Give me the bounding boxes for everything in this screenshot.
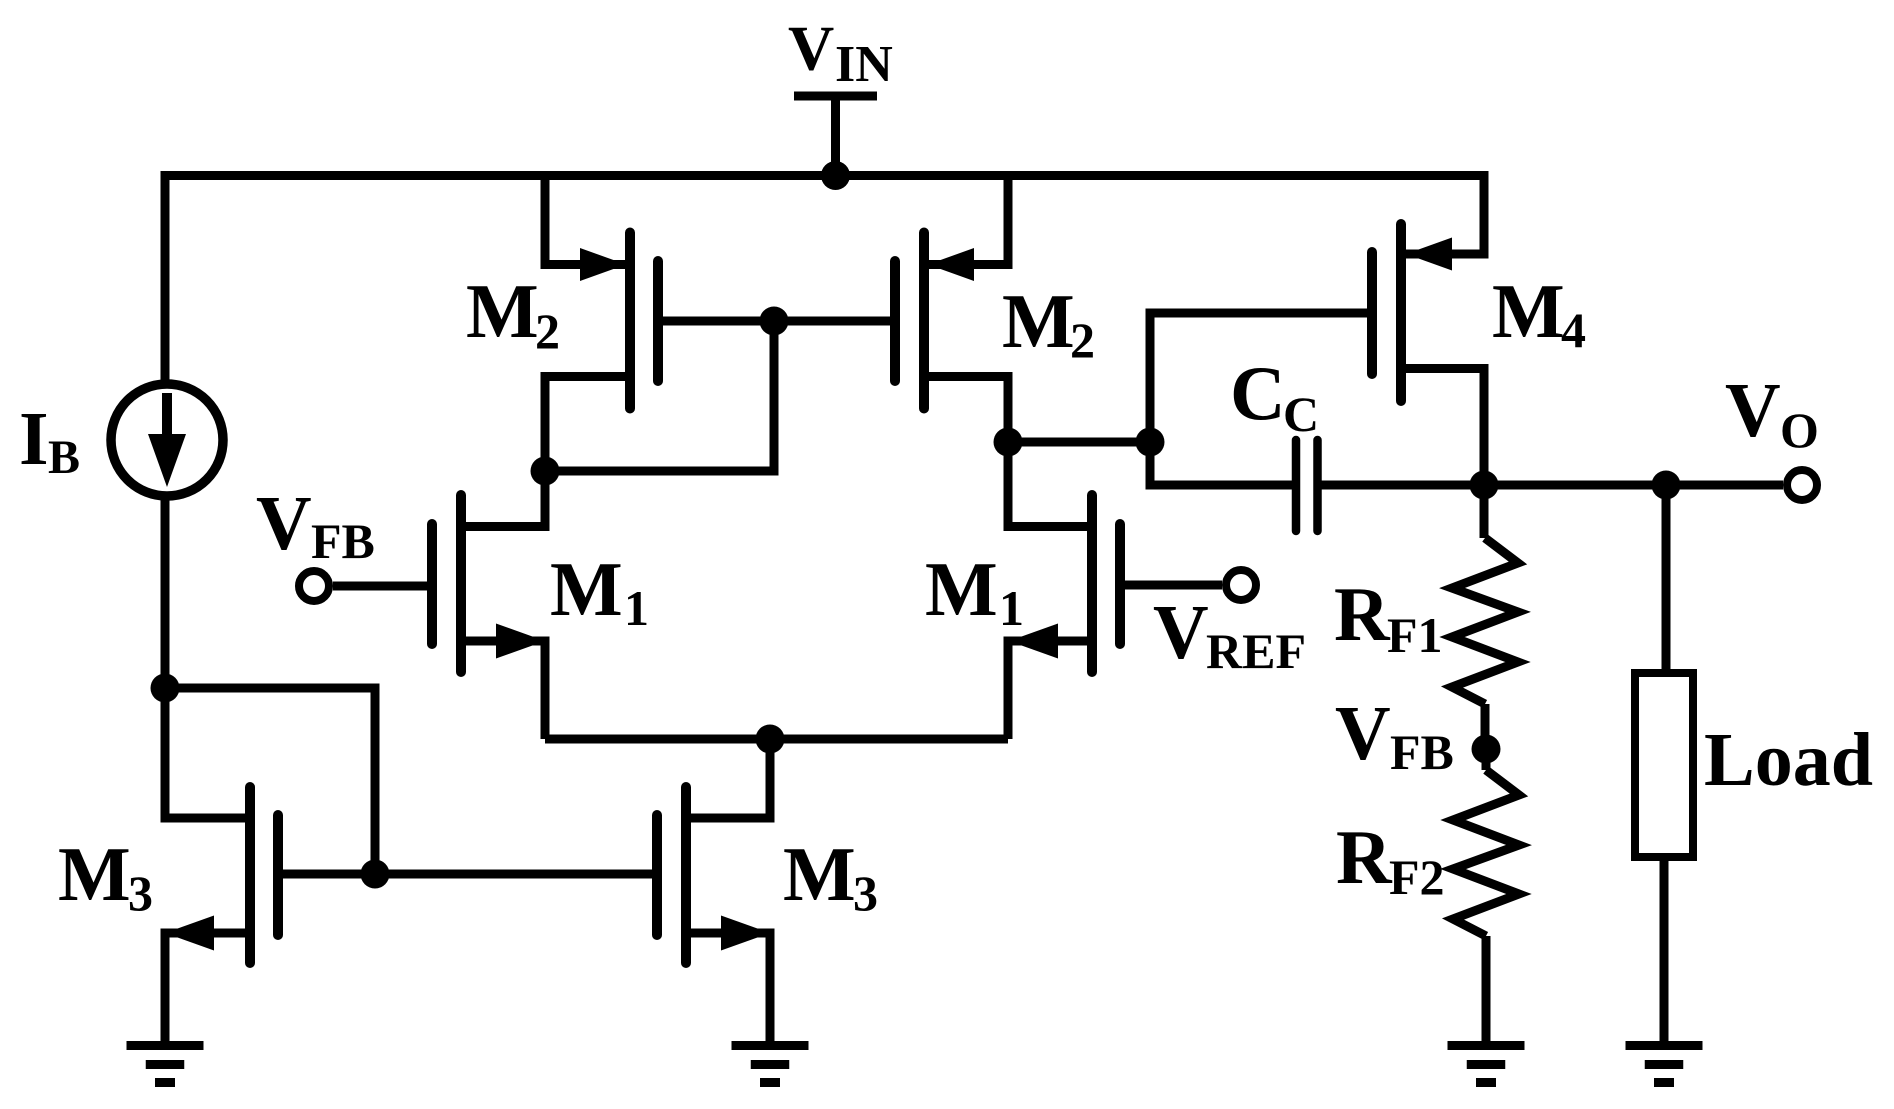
svg-text:V: V: [1153, 589, 1209, 675]
svg-text:IN: IN: [835, 36, 893, 93]
svg-text:V: V: [256, 480, 312, 566]
svg-text:M: M: [58, 831, 131, 917]
svg-text:3: 3: [853, 865, 878, 921]
svg-text:4: 4: [1561, 302, 1586, 358]
svg-text:O: O: [1780, 402, 1819, 458]
svg-text:C: C: [1283, 386, 1319, 442]
svg-text:M: M: [925, 546, 998, 632]
svg-text:M: M: [783, 831, 856, 917]
svg-text:V: V: [1335, 690, 1391, 776]
svg-text:F1: F1: [1387, 607, 1443, 663]
svg-text:FB: FB: [311, 513, 375, 569]
svg-text:1: 1: [999, 580, 1024, 636]
svg-text:C: C: [1230, 350, 1286, 436]
svg-text:F2: F2: [1389, 849, 1445, 905]
svg-text:1: 1: [624, 580, 649, 636]
svg-text:3: 3: [128, 865, 153, 921]
svg-text:2: 2: [1070, 312, 1095, 368]
svg-text:FB: FB: [1390, 724, 1454, 780]
svg-text:REF: REF: [1206, 623, 1306, 679]
svg-text:R: R: [1334, 571, 1391, 657]
svg-text:V: V: [788, 13, 834, 84]
svg-text:M: M: [550, 546, 623, 632]
svg-text:B: B: [48, 431, 80, 484]
svg-text:V: V: [1725, 367, 1781, 453]
svg-text:Load: Load: [1704, 718, 1873, 802]
svg-text:M: M: [1492, 268, 1565, 354]
svg-text:R: R: [1336, 814, 1393, 900]
svg-text:I: I: [19, 397, 49, 481]
svg-text:M: M: [1002, 278, 1075, 364]
svg-text:2: 2: [535, 303, 560, 359]
svg-text:M: M: [466, 268, 539, 354]
